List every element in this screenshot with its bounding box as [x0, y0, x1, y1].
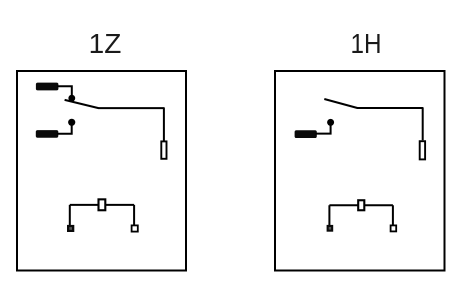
svg-text:1H: 1H: [351, 28, 382, 59]
svg-text:1Z: 1Z: [89, 28, 122, 59]
